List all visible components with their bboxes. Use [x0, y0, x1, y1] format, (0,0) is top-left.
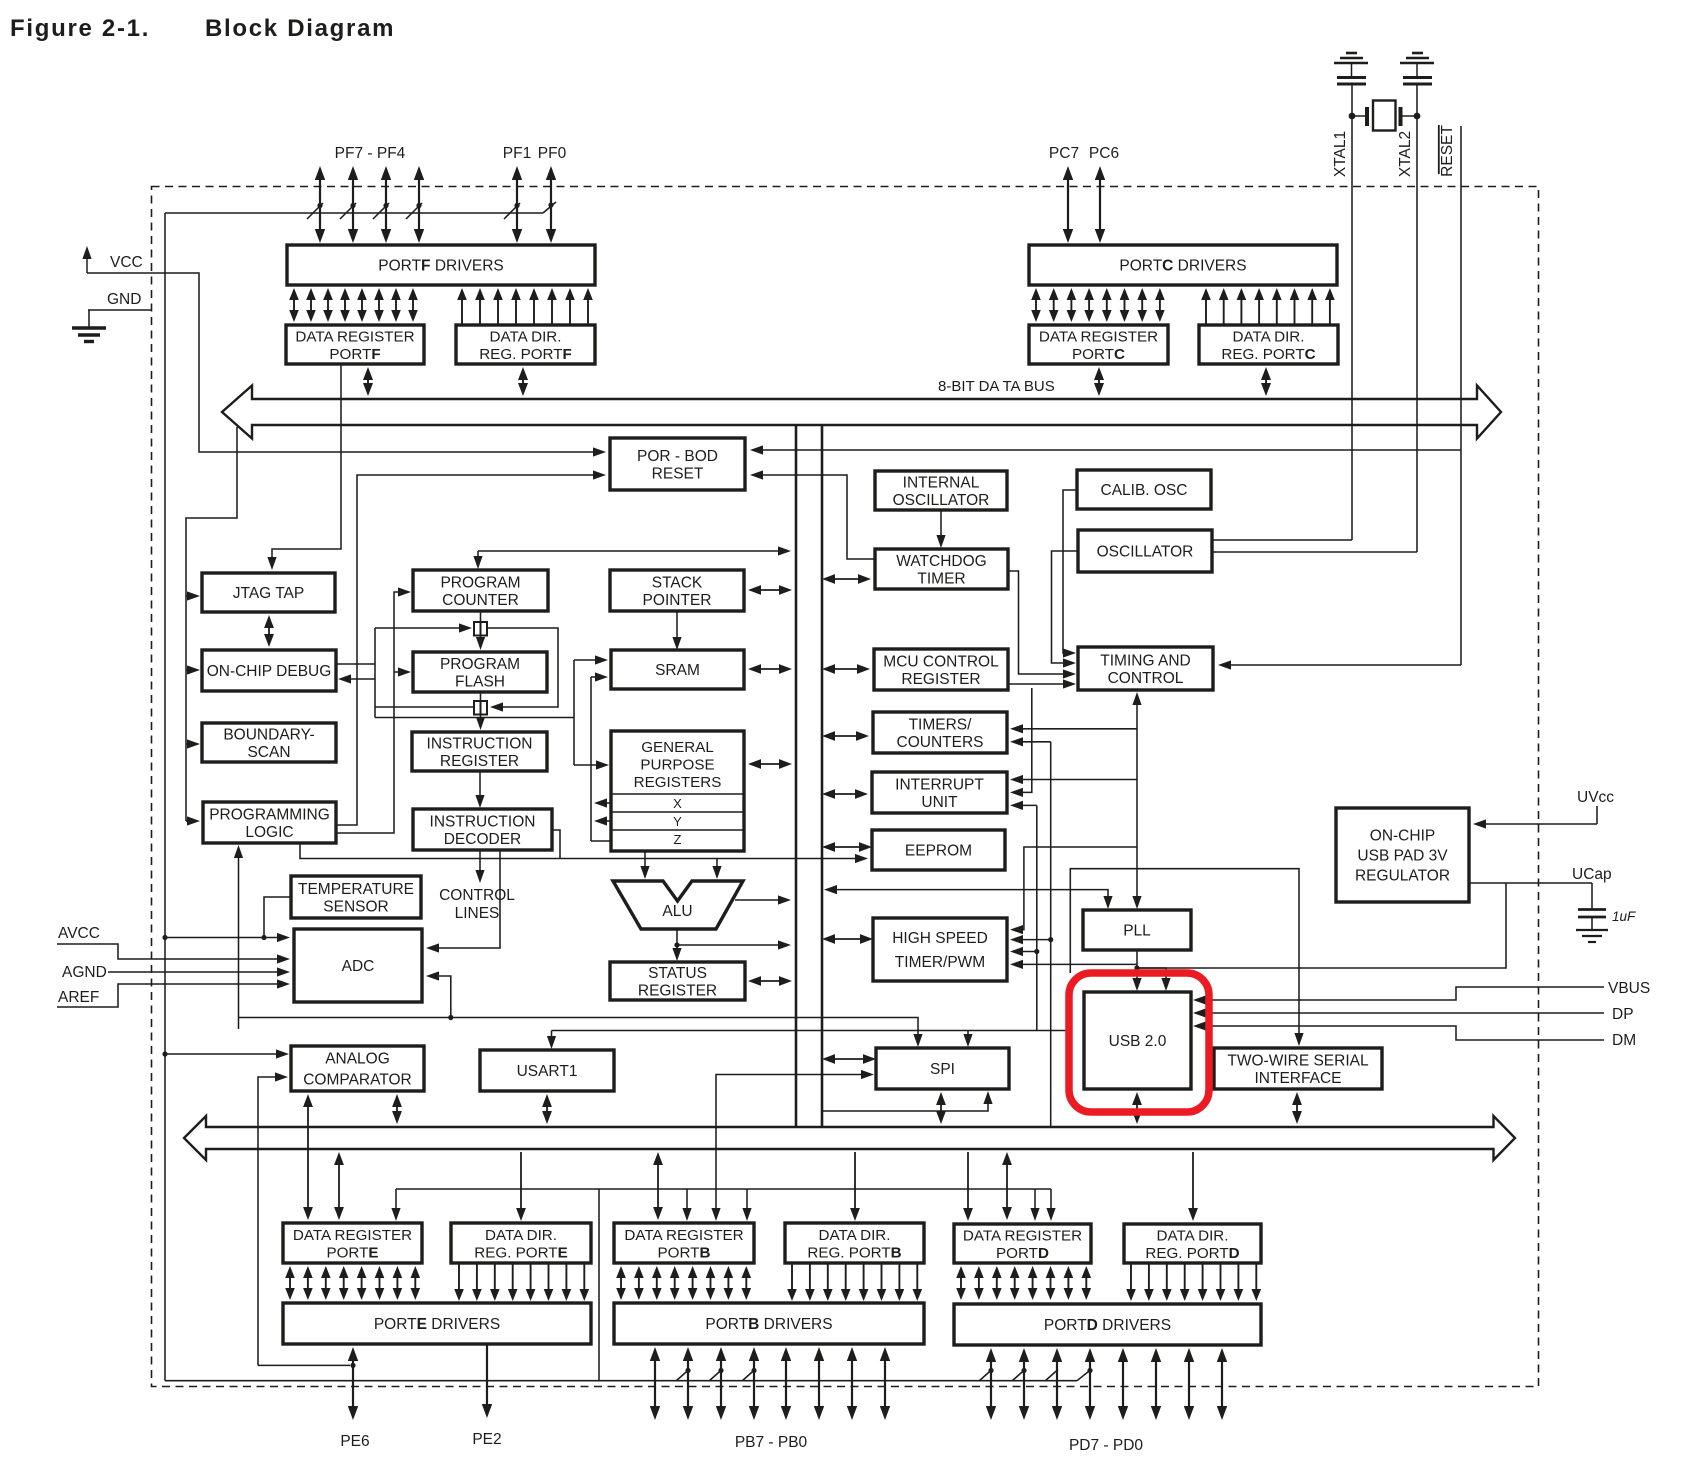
wire left analog rail: [162, 213, 167, 1381]
PORTE data direction arrows: [454, 1263, 589, 1301]
wire program counter to program flash: [476, 611, 485, 650]
fuse square F1: [474, 622, 487, 636]
wire analog rail to ADC: [165, 933, 290, 942]
wire data dir PORTC to data bus: [1265, 379, 1267, 384]
svg-text:Block Diagram: Block Diagram: [205, 15, 395, 42]
svg-text:TIMER/PWM: TIMER/PWM: [895, 954, 985, 971]
svg-text:PE2: PE2: [472, 1431, 501, 1448]
wire USART1 / SPI clock line: [547, 1031, 1069, 1050]
svg-text:VCC: VCC: [110, 254, 143, 271]
svg-text:DATA REGISTER: DATA REGISTER: [963, 1227, 1082, 1244]
wire data bus to PORTD direction register: [1192, 1152, 1194, 1209]
svg-text:PF0: PF0: [538, 145, 567, 162]
wire MCU control register to timing and control: [1008, 679, 1076, 688]
block PROGRAM FLASH: [413, 652, 547, 692]
wire VBUS to USB: [1193, 987, 1604, 1005]
wire DM to USB: [1193, 1021, 1604, 1040]
wire oscillator to XTAL1: [1212, 539, 1352, 541]
wire UVcc to regulator: [1473, 819, 1597, 828]
wire X Y Z registers to SRAM: [591, 672, 611, 841]
svg-text:ADC: ADC: [342, 958, 375, 975]
block DATA DIR. REG. PORTE: [451, 1223, 591, 1263]
svg-text:REG. PORTD: REG. PORTD: [1145, 1245, 1239, 1262]
svg-text:TEMPERATURE: TEMPERATURE: [298, 881, 414, 898]
svg-text:PORTE DRIVERS: PORTE DRIVERS: [374, 1316, 500, 1333]
wire general purpose registers to internal bus: [760, 763, 780, 765]
block PORTD DRIVERS: [954, 1304, 1261, 1345]
svg-text:AGND: AGND: [62, 964, 107, 981]
wire SRAM to internal bus: [760, 668, 780, 670]
wire watchdog timer to data bus: [834, 578, 859, 580]
wire on-chip debug to fuse squares: [336, 623, 558, 717]
block MCU CONTROL REGISTER: [874, 649, 1008, 690]
block OSCILLATOR: [1078, 530, 1212, 572]
wire timing and control to PLL: [1132, 692, 1141, 909]
svg-text:STACK: STACK: [652, 574, 703, 591]
block HIGH SPEED TIMER/PWM: [873, 918, 1007, 981]
internal data bus vertical (right): [821, 425, 824, 1127]
wire data register PORTF to JTAG TAP: [267, 364, 341, 570]
wire JTAG chain: [186, 591, 200, 825]
svg-text:HIGH SPEED: HIGH SPEED: [892, 930, 988, 947]
block SPI: [876, 1048, 1009, 1089]
wire stack pointer to internal bus: [760, 589, 780, 591]
wire AREF to ADC: [57, 979, 290, 1007]
svg-text:PROGRAM: PROGRAM: [440, 656, 520, 673]
wire timing and control clock lines: [1010, 688, 1137, 1127]
block ALU: [613, 881, 743, 929]
wire to ALU right input: [712, 859, 721, 880]
block PORTE DRIVERS: [283, 1303, 591, 1344]
wire regulator to UCap: [1469, 883, 1592, 909]
wire rail to analog comparator: [165, 1049, 289, 1058]
block USART1: [480, 1050, 614, 1091]
PORTC pad arrows (PC7, PC6): [1063, 166, 1105, 243]
svg-text:PF7 - PF4: PF7 - PF4: [335, 145, 406, 162]
svg-text:ON-CHIP: ON-CHIP: [1370, 828, 1435, 845]
wire temperature sensor to ADC: [261, 897, 291, 940]
block DATA DIR. REG. PORTF: [456, 325, 595, 364]
svg-text:DATA DIR.: DATA DIR.: [818, 1227, 890, 1244]
svg-text:PLL: PLL: [1123, 923, 1151, 940]
svg-text:UCap: UCap: [1572, 866, 1612, 883]
wire UCap net to PLL/USB: [1137, 883, 1506, 968]
wire timers/counters to data bus: [834, 735, 857, 737]
svg-text:INTERNAL: INTERNAL: [903, 474, 980, 491]
svg-text:INSTRUCTION: INSTRUCTION: [427, 735, 533, 752]
svg-text:ANALOG: ANALOG: [325, 1051, 390, 1068]
block DATA REGISTER PORTC: [1029, 325, 1168, 364]
wire instruction register to instruction decoder: [475, 771, 484, 808]
svg-text:MCU CONTROL: MCU CONTROL: [883, 653, 999, 670]
PORTD data register bus arrows: [956, 1266, 1091, 1300]
svg-text:PORTF DRIVERS: PORTF DRIVERS: [378, 258, 503, 275]
wire SPI to PORTB register: [711, 1070, 874, 1221]
wire interrupt unit to data bus: [834, 793, 856, 795]
svg-text:PB7 - PB0: PB7 - PB0: [735, 1434, 808, 1451]
svg-text:PF1: PF1: [503, 145, 531, 162]
wire two-wire serial interface to data bus: [1296, 1104, 1298, 1112]
svg-text:PROGRAM: PROGRAM: [440, 574, 520, 591]
svg-text:XTAL1: XTAL1: [1332, 131, 1349, 177]
block JTAG TAP: [202, 573, 335, 612]
wire RESET to timing and control: [1218, 660, 1461, 669]
block TIMERS/ COUNTERS: [873, 712, 1007, 753]
svg-text:RESET: RESET: [652, 465, 704, 482]
svg-text:INSTRUCTION: INSTRUCTION: [430, 813, 536, 830]
svg-text:TIMERS/: TIMERS/: [909, 716, 973, 733]
svg-text:UVcc: UVcc: [1577, 789, 1614, 806]
svg-text:DATA REGISTER: DATA REGISTER: [624, 1227, 743, 1244]
svg-text:ON-CHIP DEBUG: ON-CHIP DEBUG: [207, 663, 332, 680]
block INTERRUPT UNIT: [872, 772, 1007, 813]
crystal Y1: [1349, 101, 1421, 131]
wire stack pointer to SRAM: [672, 611, 681, 650]
svg-text:CONTROL: CONTROL: [1108, 670, 1184, 687]
block INTERNAL OSCILLATOR: [875, 471, 1007, 510]
svg-text:REGISTERS: REGISTERS: [634, 774, 722, 791]
block INSTRUCTION REGISTER: [412, 732, 547, 771]
svg-text:Y: Y: [673, 814, 682, 829]
svg-text:DATA REGISTER: DATA REGISTER: [1039, 328, 1158, 345]
wire alternate-function switches (top): [165, 202, 556, 219]
svg-text:PROGRAMMING: PROGRAMMING: [209, 806, 330, 823]
svg-text:DATA DIR.: DATA DIR.: [485, 1227, 557, 1244]
block DATA DIR. REG. PORTD: [1124, 1224, 1261, 1263]
wire XTAL1: [1351, 84, 1353, 540]
wire SPI to PORTD register: [967, 1152, 969, 1209]
svg-text:PORTB: PORTB: [658, 1244, 711, 1261]
block POR - BOD RESET: [610, 438, 745, 490]
svg-text:CALIB. OSC: CALIB. OSC: [1101, 482, 1188, 499]
svg-text:TIMER: TIMER: [917, 570, 965, 587]
wire SPI to data bus (bottom): [940, 1104, 942, 1112]
wire PLL to USB: [1132, 950, 1170, 991]
svg-text:TIMING AND: TIMING AND: [1100, 652, 1190, 669]
figure title: [10, 15, 395, 42]
VCC pin: [82, 246, 142, 273]
block GENERAL PURPOSE REGISTERS: [611, 731, 744, 851]
svg-text:POINTER: POINTER: [643, 592, 712, 609]
wire analog comparator input: [258, 1072, 288, 1365]
block INSTRUCTION DECODER: [413, 809, 552, 850]
wire rail to programming logic: [234, 845, 243, 1029]
svg-text:USB 2.0: USB 2.0: [1109, 1033, 1167, 1050]
svg-text:WATCHDOG: WATCHDOG: [896, 553, 986, 570]
wire RESET to POR-BOD: [750, 445, 1461, 454]
svg-text:REG. PORTF: REG. PORTF: [479, 346, 572, 363]
wire AVCC to ADC: [57, 944, 290, 964]
block PLL: [1083, 910, 1191, 950]
svg-text:PURPOSE: PURPOSE: [640, 757, 714, 774]
wire USB to two-wire serial interface: [1070, 869, 1303, 1046]
wire program flash to instruction register: [476, 692, 485, 730]
UCap pin: [1572, 866, 1612, 883]
block ON-CHIP USB PAD 3V REGULATOR: [1336, 808, 1469, 902]
svg-text:FLASH: FLASH: [455, 673, 505, 690]
svg-text:AREF: AREF: [58, 989, 99, 1006]
svg-text:USART1: USART1: [517, 1063, 578, 1080]
svg-text:LOGIC: LOGIC: [245, 824, 293, 841]
block DATA REGISTER PORTB: [614, 1223, 754, 1263]
wire programming logic to POR-BOD: [336, 470, 606, 825]
svg-text:RESET: RESET: [1439, 125, 1456, 177]
svg-text:VBUS: VBUS: [1608, 980, 1650, 997]
wire high speed timer to data bus: [834, 938, 861, 940]
fuse square F2: [474, 701, 487, 715]
block ANALOG COMPARATOR: [291, 1046, 424, 1091]
block PORTF DRIVERS: [287, 245, 595, 285]
XTAL1 pin capacitor and ground: [1334, 53, 1368, 84]
svg-text:DATA REGISTER: DATA REGISTER: [295, 328, 414, 345]
wire status register to internal bus: [760, 980, 780, 982]
wire AGND to ADC: [108, 967, 290, 976]
svg-text:Z: Z: [674, 832, 682, 847]
PORTC data register bus arrows: [1031, 288, 1165, 322]
block WATCHDOG TIMER: [875, 549, 1008, 589]
svg-text:PORTD DRIVERS: PORTD DRIVERS: [1044, 1317, 1171, 1334]
block PORTB DRIVERS: [614, 1303, 924, 1344]
svg-text:DATA DIR.: DATA DIR.: [1232, 328, 1304, 345]
wire data bus to PORTB register: [657, 1164, 659, 1208]
wire EEPROM to data bus: [834, 846, 860, 848]
svg-text:DATA REGISTER: DATA REGISTER: [293, 1227, 412, 1244]
svg-text:JTAG TAP: JTAG TAP: [233, 585, 304, 602]
wire programming logic to program counter / flash: [336, 587, 411, 833]
wire VCC to POR-BOD: [87, 273, 606, 457]
svg-text:PORTB DRIVERS: PORTB DRIVERS: [705, 1316, 832, 1333]
data bus (bottom): [184, 1116, 1515, 1160]
wire XTAL2: [1416, 84, 1418, 552]
block PROGRAMMING LOGIC: [203, 802, 336, 843]
wire watchdog timer to timing and control: [1008, 571, 1076, 679]
block PORTC DRIVERS: [1029, 245, 1337, 285]
chip boundary (dashed): [152, 187, 1539, 1387]
wire data bus to PORTD register: [1006, 1164, 1008, 1208]
svg-text:OSCILLATOR: OSCILLATOR: [893, 492, 990, 509]
wire data register PORTC to data bus: [1098, 379, 1100, 384]
PORTD data direction arrows: [1126, 1263, 1261, 1301]
PORTF pad arrows (PF7-PF4, PF1, PF0): [315, 166, 556, 243]
svg-text:PD7 - PD0: PD7 - PD0: [1069, 1437, 1143, 1454]
ground symbol (UCap): [1576, 930, 1608, 942]
svg-text:SPI: SPI: [930, 1061, 955, 1078]
svg-text:GND: GND: [107, 291, 141, 308]
wire comparator net to PE6: [258, 1363, 356, 1368]
svg-text:COUNTER: COUNTER: [442, 592, 519, 609]
internal data bus vertical (left): [795, 425, 798, 1127]
block ON-CHIP DEBUG: [202, 650, 336, 691]
svg-text:STATUS: STATUS: [648, 965, 707, 982]
svg-text:LINES: LINES: [455, 905, 500, 922]
svg-text:UNIT: UNIT: [921, 794, 958, 811]
wire internal oscillator to watchdog timer: [936, 510, 945, 548]
XTAL2 pin capacitor and ground: [1400, 53, 1434, 84]
PORTF data register bus arrows: [289, 288, 418, 322]
wire USB to data bus: [1136, 1104, 1138, 1112]
USB 2.0 highlight (red): [1069, 973, 1209, 1112]
svg-text:POR - BOD: POR - BOD: [637, 448, 718, 465]
wire ALU to status register: [672, 929, 791, 961]
svg-text:PORTD: PORTD: [996, 1245, 1049, 1262]
wire left rail to JTAG chain: [186, 427, 237, 821]
GND pin: [88, 291, 151, 328]
svg-text:8-BIT DA TA BUS: 8-BIT DA TA BUS: [938, 378, 1055, 395]
svg-text:USB PAD 3V: USB PAD 3V: [1357, 848, 1448, 865]
block STATUS REGISTER: [610, 962, 745, 1000]
wire RESET: [1460, 126, 1462, 665]
PE6 pad arrow: [348, 1347, 358, 1420]
wire JTAG TAP to on-chip debug: [268, 627, 270, 635]
block STACK POINTER: [610, 570, 744, 611]
PE2 pad arrow: [486, 1345, 488, 1405]
wire instruction register to SRAM: [375, 655, 609, 769]
svg-text:INTERFACE: INTERFACE: [1255, 1070, 1342, 1087]
wire to ADC right input: [426, 971, 453, 1020]
block DATA DIR. REG. PORTB: [785, 1223, 924, 1263]
wire program counter to internal bus: [473, 546, 791, 569]
svg-text:PE6: PE6: [340, 1433, 369, 1450]
wire register write feed: [391, 1189, 1055, 1221]
block TIMING AND CONTROL: [1078, 647, 1213, 690]
control lines label: [439, 887, 515, 922]
svg-text:DP: DP: [1612, 1006, 1634, 1023]
svg-text:PC6: PC6: [1089, 145, 1119, 162]
8-bit data bus (top): [222, 386, 1501, 439]
svg-text:SRAM: SRAM: [655, 662, 700, 679]
wire oscillator to timing and control: [1052, 551, 1079, 668]
wire watchdog timer to POR-BOD: [750, 470, 875, 559]
block TEMPERATURE SENSOR: [291, 876, 421, 918]
svg-text:PORTF: PORTF: [329, 346, 380, 363]
wire oscillator to XTAL2: [1212, 551, 1417, 553]
svg-text:BOUNDARY-: BOUNDARY-: [223, 726, 314, 743]
wire data bus to PLL: [824, 885, 1113, 909]
block DATA REGISTER PORTD: [954, 1224, 1091, 1263]
block PROGRAM COUNTER: [413, 570, 548, 611]
block SRAM: [611, 650, 744, 689]
PORTB data register bus arrows: [616, 1266, 751, 1300]
wire data bus to PORTE direction register: [520, 1152, 522, 1209]
svg-text:SENSOR: SENSOR: [323, 898, 388, 915]
svg-text:REGULATOR: REGULATOR: [1355, 868, 1450, 885]
svg-text:PC7: PC7: [1049, 145, 1079, 162]
svg-text:X: X: [673, 796, 682, 811]
svg-text:PORTC DRIVERS: PORTC DRIVERS: [1119, 258, 1246, 275]
wire alternate-function switches (bottom): [165, 1189, 1093, 1381]
svg-text:REGISTER: REGISTER: [901, 671, 980, 688]
PORTC data direction arrows: [1201, 288, 1335, 325]
PORTB data direction arrows: [787, 1263, 922, 1301]
wire control lines to SPI (a): [239, 1018, 923, 1048]
wire data register PORTF to data bus: [367, 379, 369, 384]
block TWO-WIRE SERIAL INTERFACE: [1214, 1048, 1382, 1089]
svg-text:AVCC: AVCC: [58, 925, 100, 942]
wire data bus to PORTE register: [338, 1164, 340, 1208]
wire data bus to PORTB direction register: [854, 1152, 856, 1209]
svg-text:XTAL2: XTAL2: [1397, 131, 1414, 177]
PORTE data register bus arrows: [285, 1266, 420, 1300]
svg-text:1uF: 1uF: [1612, 909, 1636, 924]
block BOUNDARY-SCAN: [202, 723, 336, 762]
wire USART1 to data bus: [546, 1106, 548, 1112]
block DATA REGISTER PORTE: [283, 1223, 422, 1263]
svg-text:REGISTER: REGISTER: [440, 753, 519, 770]
svg-text:DECODER: DECODER: [444, 831, 522, 848]
block DATA DIR. REG. PORTC: [1199, 325, 1338, 364]
block USB 2.0: [1084, 992, 1191, 1089]
svg-text:TWO-WIRE SERIAL: TWO-WIRE SERIAL: [1227, 1052, 1369, 1069]
svg-text:REGISTER: REGISTER: [638, 982, 717, 999]
wire analog comparator to PORTE register: [307, 1106, 309, 1208]
UVcc pin: [1577, 789, 1614, 824]
block CALIB. OSC: [1077, 470, 1211, 509]
wire calibrated oscillator to timing and control: [1063, 490, 1077, 658]
capacitor C1 1uF: [1578, 909, 1636, 930]
block EEPROM: [872, 830, 1005, 870]
svg-text:INTERRUPT: INTERRUPT: [895, 776, 984, 793]
block ADC: [294, 929, 422, 1002]
wire ALU to internal bus: [735, 895, 791, 904]
svg-text:EEPROM: EEPROM: [905, 843, 972, 860]
wire analog comparator to data bus: [396, 1106, 398, 1112]
svg-text:COUNTERS: COUNTERS: [897, 734, 984, 751]
RESET pin label (active low): [1439, 125, 1456, 177]
PORTF data direction arrows: [457, 288, 593, 325]
svg-text:COMPARATOR: COMPARATOR: [303, 1072, 412, 1089]
svg-text:REG. PORTB: REG. PORTB: [807, 1244, 901, 1261]
wire programming logic to EEPROM: [300, 830, 868, 863]
wire general purpose registers to ALU: [640, 851, 649, 879]
svg-text:DATA DIR.: DATA DIR.: [489, 328, 561, 345]
svg-text:CONTROL: CONTROL: [439, 887, 515, 904]
svg-text:GENERAL: GENERAL: [641, 739, 714, 756]
ground symbol (GND): [72, 328, 106, 342]
wire data bus to SPI (bottom): [822, 1091, 993, 1111]
wire data dir PORTF to data bus: [522, 379, 524, 384]
wire MCU control register to data bus: [834, 668, 858, 670]
svg-text:PORTC: PORTC: [1072, 346, 1125, 363]
PB7-PB0 pad arrows: [650, 1347, 890, 1420]
svg-text:OSCILLATOR: OSCILLATOR: [1097, 544, 1194, 561]
svg-text:DATA DIR.: DATA DIR.: [1156, 1227, 1228, 1244]
PD7-PD0 pad arrows: [986, 1348, 1227, 1420]
wire SPI to data bus: [834, 1058, 864, 1060]
svg-text:REG. PORTC: REG. PORTC: [1221, 346, 1315, 363]
wire instruction decoder to control lines: [475, 850, 484, 883]
wire DP to USB: [1193, 1008, 1604, 1017]
svg-text:ALU: ALU: [662, 903, 692, 920]
svg-text:REG. PORTE: REG. PORTE: [474, 1244, 567, 1261]
svg-text:PORTE: PORTE: [326, 1244, 378, 1261]
block DATA REGISTER PORTF: [286, 325, 424, 364]
svg-text:DM: DM: [1612, 1032, 1636, 1049]
svg-text:SCAN: SCAN: [247, 744, 290, 761]
svg-text:Figure 2-1.: Figure 2-1.: [10, 15, 150, 42]
wire control lines to ADC: [426, 850, 500, 953]
